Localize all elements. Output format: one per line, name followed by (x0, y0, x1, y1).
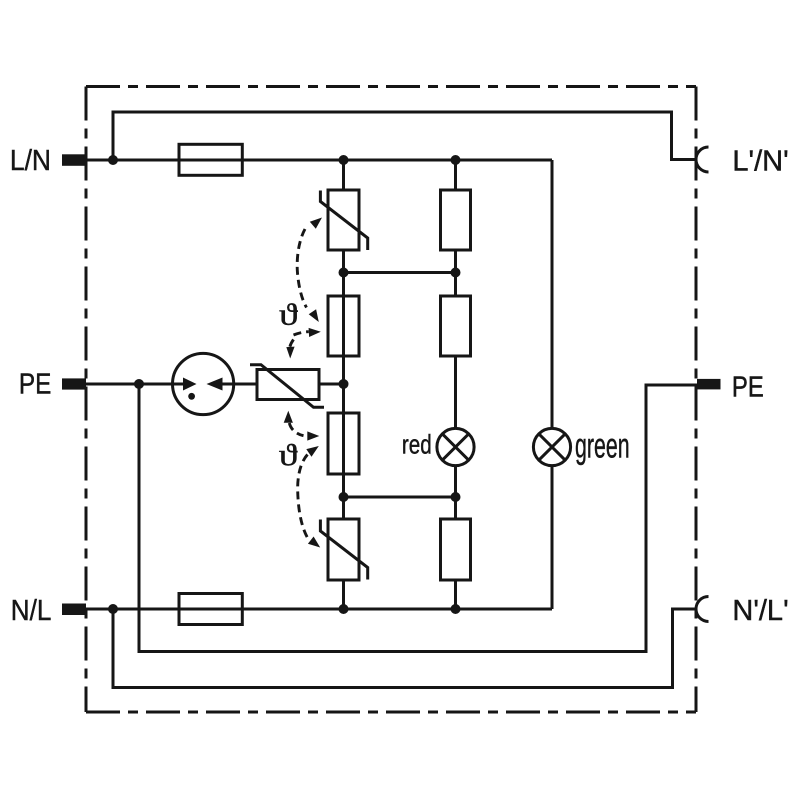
junction row4 left (339, 492, 349, 502)
svg-text:L'/N': L'/N' (732, 145, 788, 177)
terminal PE left (62, 378, 86, 389)
wire N/L row (86, 608, 552, 611)
wire bypass L/N to L'/N' (113, 112, 696, 160)
svg-text:N'/L': N'/L' (732, 595, 788, 627)
terminal PE right (697, 379, 721, 390)
junction PE varistor column (339, 379, 349, 389)
fuse F1 L/N (179, 144, 242, 175)
lamp red (437, 428, 474, 465)
varistor RV2 (320, 519, 367, 580)
enclosure dash-dot border top (86, 85, 696, 88)
svg-text:PE: PE (732, 370, 764, 403)
junction row2 left (339, 268, 349, 278)
wire row4 link (344, 496, 456, 499)
varistor RV1 (320, 190, 367, 250)
connector arc L'/N' (696, 147, 709, 172)
enclosure dash-dot border left (85, 87, 88, 713)
arrowhead up to RV3 bottom (284, 411, 293, 423)
wire varistor column middle (342, 250, 345, 519)
junction bottom bypass (108, 604, 118, 614)
wire varistor column top (342, 160, 345, 190)
junction top bypass (108, 155, 118, 165)
arrowhead to F4 (307, 431, 319, 440)
enclosure dash-dot border bottom (86, 711, 696, 714)
junction row2 right (451, 268, 461, 278)
wire resistor column segment 2 (454, 250, 457, 296)
resistor R3 (441, 519, 471, 580)
svg-text:L/N: L/N (10, 144, 51, 176)
wire PE row right (319, 383, 344, 386)
wire resistor column segment 1 (454, 160, 457, 190)
connector arc N'/L' (696, 597, 709, 622)
junction PE left (134, 379, 144, 389)
wire resistor column segment 4 (454, 466, 457, 519)
wire green lamp column top (551, 160, 554, 428)
wire N/L loop to N'/L' (113, 609, 696, 688)
svg-text:green: green (575, 427, 630, 466)
arrowhead to RV1 (310, 218, 322, 229)
varistor RV3 horizontal (250, 365, 324, 408)
svg-text:red: red (402, 430, 432, 460)
wire green lamp column bottom (551, 466, 554, 609)
spark gap trigger dot (188, 393, 195, 400)
wire PE row mid (222, 383, 257, 386)
thermal arrow curve F4 to RV2 (298, 455, 309, 540)
junction bottom resistor column (451, 604, 461, 614)
fuse F2 N/L (179, 594, 242, 625)
thermal arrow curve RV3 to F4 (289, 423, 303, 436)
fuse F4 thermal (328, 413, 359, 474)
wire L/N row (86, 159, 552, 162)
spark gap right electrode (207, 378, 223, 391)
svg-text:PE: PE (19, 368, 51, 400)
arrowhead to F3 (309, 328, 321, 337)
arrowhead to RV2 (308, 537, 320, 548)
wire varistor column bottom (342, 580, 345, 609)
arrowhead to F3 top (309, 309, 319, 322)
enclosure dash-dot border right (695, 87, 698, 713)
wire PE loop (139, 384, 697, 652)
junction top resistor column (451, 155, 461, 165)
junction bottom varistor column (339, 604, 349, 614)
wire resistor column segment 3 (454, 356, 457, 428)
svg-text:N/L: N/L (11, 594, 52, 627)
junction top varistor column (339, 155, 349, 165)
svg-text:ϑ: ϑ (279, 298, 299, 332)
spark gap G1 circle (173, 353, 234, 414)
svg-text:ϑ: ϑ (279, 438, 299, 472)
thermal arrow curve to RV3 (289, 340, 293, 350)
wire resistor column segment 5 (454, 580, 457, 609)
terminal L/N (62, 154, 86, 166)
thermal arrow curve to RV1 and F3 top (297, 229, 306, 308)
fuse F3 thermal (328, 296, 359, 356)
spark gap left electrode (183, 378, 197, 391)
wire PE row left (86, 383, 184, 386)
thermal arrow curve to F3 (294, 332, 309, 335)
junction row4 right (451, 492, 461, 502)
resistor R2 (441, 296, 471, 356)
arrowhead to RV3 (286, 347, 294, 359)
lamp green (533, 428, 570, 465)
resistor R1 (441, 190, 471, 250)
arrowhead up to F4 bottom (306, 446, 319, 457)
wire row2 link (344, 271, 456, 274)
terminal N/L (62, 604, 86, 616)
